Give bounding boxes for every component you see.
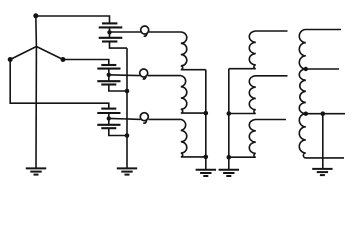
wire (upper tap lead) bbox=[306, 68, 339, 70]
node (winding T1 lower tap) bbox=[304, 112, 308, 116]
capacitor C2 (lower, phase A stack) bbox=[99, 38, 123, 42]
ground (below wye neutral) bbox=[26, 168, 46, 174]
inductor L3 (one-turn loop, row 3) bbox=[140, 113, 148, 123]
node (lower tap ground branch junction) bbox=[321, 111, 326, 116]
wire (phase A to capacitor stack 1) bbox=[36, 16, 110, 23]
wire (stack 3 bottom to grounded bus) bbox=[109, 128, 127, 135]
wire (neutral from wye vertex down to ground) bbox=[35, 47, 37, 169]
capacitor C1 (upper, phase A stack) bbox=[99, 23, 123, 27]
node B (phase B terminal dot) bbox=[61, 57, 66, 62]
ground (below tapped winding) bbox=[312, 169, 332, 175]
wire (stack 2 bottom to grounded bus) bbox=[109, 85, 127, 92]
capacitor C5 (upper, phase C stack) bbox=[97, 109, 120, 113]
wire (primary neutral bus) bbox=[205, 70, 207, 170]
winding S1 (transformer secondary, row 1) bbox=[229, 31, 288, 69]
ground (below primary bus) bbox=[196, 170, 216, 176]
wire (phase C to capacitor stack 3) bbox=[10, 60, 109, 109]
node (P3 to primary bus junction) bbox=[204, 155, 209, 160]
node (winding T1 upper tap) bbox=[304, 67, 308, 71]
winding P1 (transformer primary, row 1) bbox=[149, 32, 206, 70]
winding P3 (transformer primary, row 3) bbox=[149, 119, 206, 156]
winding P2 (transformer primary, row 2) bbox=[148, 76, 206, 114]
wire (row 1 tap lead to loop) bbox=[110, 31, 141, 33]
wire (wye vertex branches: up to A, down-left to C, down-right to B) bbox=[10, 16, 63, 60]
node (stack 2 tap junction) bbox=[107, 73, 111, 77]
wire (tap ground drop) bbox=[322, 114, 324, 169]
wire (lower tap lead) bbox=[306, 113, 345, 115]
capacitor C4 (lower, phase B stack) bbox=[97, 81, 120, 84]
ground (below secondary bus) bbox=[219, 170, 239, 176]
node C (phase C terminal dot) bbox=[8, 57, 13, 62]
inductor L1 (one-turn loop, row 1) bbox=[141, 26, 149, 36]
wire (capacitor ground bus) bbox=[126, 48, 128, 169]
wire (stack 2 mid stem) bbox=[108, 69, 110, 82]
inductor L2 (one-turn loop, row 2) bbox=[140, 69, 148, 79]
node (S2 to secondary bus junction) bbox=[227, 111, 232, 116]
capacitor C6 (lower, phase C stack) bbox=[97, 125, 120, 128]
node (stack 3 tap junction) bbox=[107, 116, 111, 120]
ground (below capacitor bus) bbox=[117, 168, 137, 174]
wire (row 2 tap lead to loop) bbox=[109, 74, 140, 77]
wire (row 3 tap lead to loop) bbox=[109, 118, 141, 119]
winding S3 (transformer secondary, row 3) bbox=[229, 120, 286, 158]
node (stack 2 bus junction) bbox=[125, 89, 130, 94]
node (S3 to secondary bus junction) bbox=[227, 155, 232, 160]
wire (secondary neutral bus) bbox=[228, 69, 230, 170]
wire (phase B to capacitor stack 2) bbox=[63, 60, 109, 66]
wire (stack 3 mid stem) bbox=[108, 113, 110, 125]
winding S2 (transformer secondary, row 2) bbox=[229, 76, 288, 114]
winding T1 (tapped autotransformer winding) bbox=[299, 30, 344, 158]
capacitor C3 (upper, phase B stack) bbox=[97, 65, 120, 69]
node A (phase A terminal dot) bbox=[33, 13, 38, 18]
wire (stack 1 mid stem) bbox=[109, 27, 111, 37]
node (stack 3 bus junction) bbox=[125, 133, 130, 138]
node (P2 to primary bus junction) bbox=[204, 111, 209, 116]
wire (stack 1 bottom to grounded bus) bbox=[110, 42, 128, 49]
node (stack 1 tap junction) bbox=[107, 30, 111, 34]
